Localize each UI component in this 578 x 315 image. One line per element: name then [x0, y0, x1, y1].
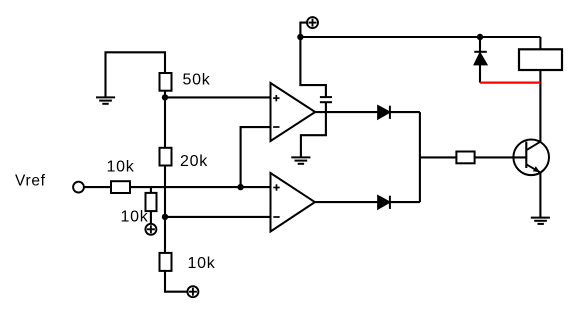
- diode D1: [378, 106, 390, 119]
- junction supply left: [297, 34, 303, 40]
- wire U1 output to D1: [315, 111, 378, 113]
- svg-text:10k: 10k: [121, 209, 149, 226]
- wire GND1 stub to top of 50k: [106, 52, 166, 97]
- wire stub down to R5: [150, 187, 152, 193]
- resistor R4: [111, 181, 130, 193]
- wire R6 to Q1 base: [475, 156, 527, 158]
- junction node A: [162, 94, 168, 100]
- power flag PWR2: [145, 224, 156, 235]
- ground GND3: [531, 218, 550, 224]
- resistor R5: [146, 193, 157, 211]
- diode D2: [378, 196, 390, 209]
- svg-text:Vref: Vref: [15, 173, 46, 190]
- wire rail to D3 cathode: [479, 37, 481, 52]
- wire D3 anode down: [479, 64, 481, 82]
- svg-text:10k: 10k: [188, 255, 216, 272]
- wire R3 bottom to power flag: [165, 271, 187, 292]
- wire U2 output to D2: [315, 201, 378, 203]
- wire supply rail: [300, 36, 540, 38]
- junction node C: [237, 184, 243, 190]
- op-amp U2: [271, 173, 315, 232]
- resistor R6: [456, 152, 474, 164]
- wire C1 to GND2: [301, 102, 326, 157]
- wire PWR1 to rail: [300, 23, 307, 37]
- relay K1 coil: [519, 49, 562, 70]
- wire node C to U1 - input: [241, 127, 271, 187]
- resistor R2: [160, 148, 172, 166]
- wire rail down to relay K1: [539, 37, 541, 49]
- wire 50k bottom to 20k top: [164, 91, 166, 148]
- svg-text:50k: 50k: [183, 72, 211, 89]
- wire node B to U2 - input: [165, 216, 271, 218]
- svg-text:20k: 20k: [180, 153, 208, 170]
- ground GND1: [96, 97, 115, 103]
- resistor R3: [160, 253, 172, 271]
- wire 20k bottom to 10k top: [164, 166, 166, 253]
- wire red highlight to relay/collector node: [480, 81, 540, 83]
- transistor Q1: [513, 140, 549, 176]
- capacitor C1: [320, 97, 332, 102]
- diode D3 flyback: [474, 52, 487, 65]
- svg-text:10k: 10k: [107, 158, 135, 175]
- wire bus to R6: [420, 156, 457, 158]
- power flag PWR4: [187, 286, 198, 297]
- wire Q1 emitter down to GND3: [539, 172, 541, 217]
- wire D1 to bus: [390, 111, 420, 113]
- wire D2 to bus: [390, 201, 420, 203]
- junction supply right: [477, 34, 483, 40]
- op-amp U1: [271, 83, 316, 141]
- ground GND2: [291, 157, 310, 163]
- wire R4 to U2 + input: [130, 186, 271, 188]
- wire node A to U1 + input: [165, 96, 271, 98]
- wire terminal to R4: [84, 186, 111, 188]
- resistor R1: [160, 73, 172, 91]
- wire supply to decoupling cap C1: [300, 37, 326, 97]
- wire R5 to power flag: [150, 211, 152, 224]
- terminal Vref input: [73, 182, 84, 193]
- wire diode OR bus: [419, 112, 421, 202]
- wire Q1 collector up to relay: [539, 70, 541, 142]
- power flag PWR1: [307, 17, 318, 28]
- junction node B: [162, 214, 168, 220]
